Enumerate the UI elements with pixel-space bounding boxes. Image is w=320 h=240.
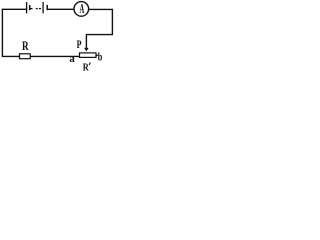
svg-text:R: R xyxy=(22,40,29,54)
svg-text:b: b xyxy=(98,51,103,64)
svg-text:A: A xyxy=(80,3,85,17)
svg-text:R: R xyxy=(83,62,90,74)
svg-text:a: a xyxy=(69,52,75,65)
svg-text:P: P xyxy=(77,39,82,52)
